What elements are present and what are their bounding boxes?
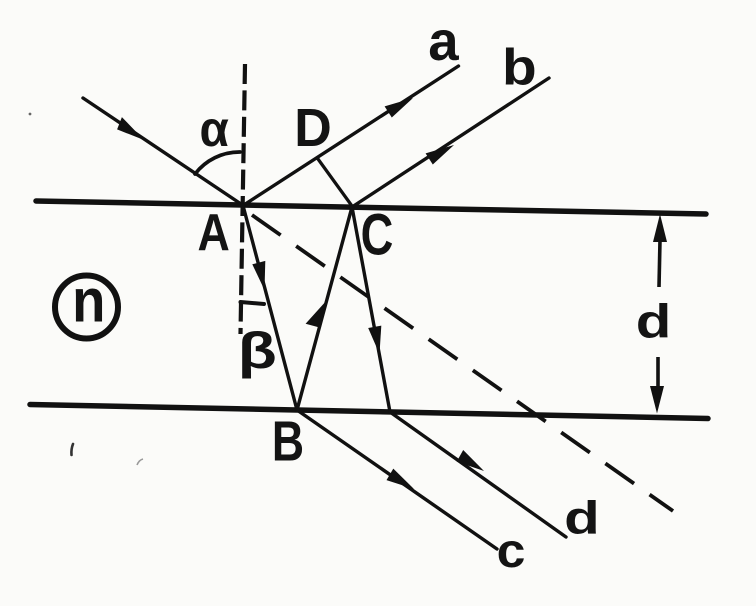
thickness dimension upper arrow shaft	[659, 240, 660, 287]
incident ray arrowhead	[117, 117, 144, 140]
ray B to C arrowhead	[306, 300, 327, 327]
ray c (exits at B)	[297, 410, 497, 549]
segment D to C	[318, 159, 352, 206]
ray d arrowhead	[457, 450, 484, 471]
normal dashed line	[241, 64, 246, 334]
ray d (exits at F)	[390, 412, 566, 537]
refracted ray arrowhead	[252, 261, 265, 290]
ray b (exits at C)	[352, 78, 549, 207]
stray speck 3	[137, 459, 143, 465]
ray C to F arrowhead	[368, 326, 381, 354]
top surface line	[36, 201, 706, 214]
svg-text:b: b	[502, 39, 537, 96]
ray a (reflected at A)	[243, 66, 459, 206]
svg-text:C: C	[361, 203, 394, 268]
angle beta tick	[241, 302, 265, 304]
ray c arrowhead	[387, 469, 415, 489]
dashed diagonal continuation of incident ray	[252, 215, 673, 511]
bottom surface line	[30, 405, 708, 419]
svg-text:d: d	[564, 492, 600, 544]
ray B to C	[297, 207, 352, 410]
svg-text:c: c	[497, 525, 526, 578]
angle alpha arc	[195, 152, 240, 174]
stray speck 1	[29, 113, 32, 116]
stray speck 2	[71, 444, 73, 455]
circle n symbol	[55, 276, 118, 339]
svg-text:B: B	[272, 410, 304, 474]
svg-text:a: a	[428, 9, 459, 72]
svg-text:A: A	[198, 204, 230, 262]
svg-text:d: d	[636, 295, 672, 348]
thickness dimension lower arrowhead	[650, 386, 664, 414]
svg-text:n: n	[72, 267, 105, 335]
svg-text:α: α	[200, 101, 230, 157]
thickness dimension lower arrow shaft	[656, 357, 660, 389]
ray b arrowhead	[426, 145, 454, 165]
refracted ray A to B	[243, 206, 297, 411]
svg-text:D: D	[294, 98, 332, 158]
svg-text:β: β	[238, 322, 277, 379]
ray a arrowhead	[385, 98, 413, 118]
incident ray	[83, 98, 244, 206]
thickness dimension upper arrowhead	[653, 214, 667, 242]
ray C to F inside plate	[352, 207, 390, 412]
